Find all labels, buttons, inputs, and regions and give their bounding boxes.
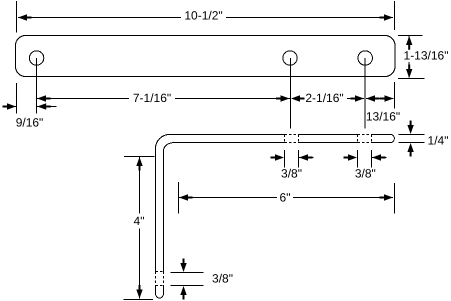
3/8 A extension line right [298,150,300,168]
arrow 1/4 down [407,121,413,135]
arrow 1-13/16 down [406,65,412,79]
arrow 7-1/16 left [37,95,51,101]
hole 2 [283,51,297,65]
hidden hole A left edge [284,135,286,143]
dim line 6 right segment [293,197,393,199]
1/4 extension line top [399,134,425,136]
dim line 4 lower segment [139,229,141,299]
dimension line 10-1/2 right segment [226,17,393,19]
hidden hole B right edge [371,135,373,143]
extension line bar left edge below [16,83,18,114]
rod right edge lower [163,286,165,294]
rod right edge upper [163,151,165,272]
dim line 7-1/16 left segment [37,98,129,100]
rod bottom edge segment 3 [372,142,391,144]
dim line 13/16 [366,98,394,100]
dim line 2-1/16 right segment [347,98,364,100]
svg-text:1-13/16": 1-13/16" [404,49,449,63]
arrow 6 left [179,194,193,200]
rod right end cap [391,135,395,143]
svg-text:6": 6" [280,191,291,205]
3/8 B right tail [372,157,387,159]
svg-text:7-1/16": 7-1/16" [133,91,171,105]
rod right edge hidden (bottom hole) [163,272,165,286]
flat bar (rounded) [16,36,396,77]
rod top edge segment 1 [170,134,285,136]
svg-text:10-1/2": 10-1/2" [184,9,222,23]
arrow 1-13/16 up [406,36,412,50]
arrow 1/4 up [407,143,413,157]
arrow 3/8 A right [299,154,313,160]
svg-text:3/8": 3/8" [281,167,302,181]
3/8 B extension line right [371,150,373,168]
center line hole 2 [290,58,292,129]
arrow 2-1/16 right [351,95,365,101]
arrow 4 up [136,157,142,171]
arrow 9/16 left (outside, pointing right) [3,103,17,109]
arrow 9/16 right (outside, pointing left) [37,103,51,109]
hidden hole A right edge [298,135,300,143]
rod bottom edge hidden (hole B) [358,142,372,144]
rod bottom edge segment 2 [299,142,358,144]
rod left edge lower [155,286,157,294]
rod inner bend arc [164,143,173,151]
4 extension line bottom [124,299,154,301]
hole 1 [29,51,43,65]
arrow 3/8 B right [372,154,386,160]
arrow 13/16 right [380,95,394,101]
arrow 3/8 B left [344,154,358,160]
arrow 10-1/2 left [18,14,32,20]
1-13/16 dim line bottom stub [408,62,410,78]
extension line left (bar left edge, above) [16,1,18,33]
hole 3 [358,51,372,65]
arrow 4 down [136,285,142,299]
rod bottom edge hidden (hole A) [285,142,299,144]
1/4 extension line bottom [399,142,425,144]
extension line bar right edge below [393,82,395,109]
dimension line 10-1/2 left segment [18,17,181,19]
arrow 13/16 left [366,95,380,101]
svg-text:2-1/16": 2-1/16" [305,91,343,105]
svg-text:13/16": 13/16" [366,110,400,124]
arrow 10-1/2 right [380,14,394,20]
3/8 bottom extension line bottom [171,285,204,287]
center line hole 1 [36,58,38,114]
arrow 3/8 bottom up [180,286,186,300]
svg-text:9/16": 9/16" [16,116,44,130]
3/8 A right tail [299,157,314,159]
1-13/16 dim line top stub [408,36,410,50]
3/8 B extension line left [357,150,359,168]
dim line 4 upper segment [139,157,141,214]
rod bottom cap [156,294,164,299]
9/16 left arrow tail [3,106,16,108]
rod top edge segment 3 [372,134,391,136]
6 extension line left [178,182,180,214]
arrow 2-1/16 left [291,95,305,101]
hidden hole B left edge [357,135,359,143]
rod left edge upper [155,149,157,272]
9/16 right arrow tail [37,106,56,108]
1-13/16 extension line top [398,35,423,37]
svg-text:4": 4" [134,214,145,228]
arrow 3/8 bottom down [180,259,186,273]
1-13/16 extension line bottom [398,78,425,80]
rod top edge segment 2 [299,134,358,136]
svg-text:1/4": 1/4" [428,134,449,148]
svg-text:3/8": 3/8" [355,167,376,181]
extension line right (bar right edge, above) [394,1,396,30]
rod bottom edge segment 1 [172,142,285,144]
rod top edge hidden (hole B) [358,134,372,136]
rod outer bend arc [156,135,170,149]
dim line 7-1/16 right segment [175,98,290,100]
3/8 bottom extension line top [171,272,204,274]
arrow 6 right [380,194,394,200]
arrow 3/8 A left [271,154,285,160]
center line hole 3 [364,58,366,129]
3/8 A extension line left [284,150,286,168]
6 extension line right [393,183,395,214]
hidden bottom hole bottom edge [156,285,164,287]
rod left edge hidden (bottom hole) [155,272,157,286]
hidden bottom hole top edge [156,271,164,273]
rod top edge hidden (hole A) [285,134,299,136]
dim line 6 left segment [179,197,277,199]
arrow 7-1/16 right [276,95,290,101]
svg-text:3/8": 3/8" [212,272,233,286]
4 extension line top [124,156,155,158]
